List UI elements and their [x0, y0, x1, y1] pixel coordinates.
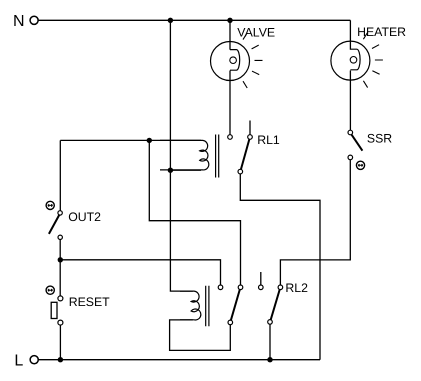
switch RL1 right contact: [248, 135, 253, 140]
switch SSR lever: [352, 135, 363, 151]
wire: RESET bottom to bottom rail: [59, 325, 61, 360]
svg-text:OUT2: OUT2: [68, 210, 101, 224]
svg-text:HEATER: HEATER: [357, 25, 406, 39]
switch SSR bottom contact: [348, 155, 353, 160]
wire: valve lamp bottom to RL1 left contact: [229, 71, 231, 135]
wire: RL2 D stub: [260, 272, 262, 285]
switch SSR top contact: [348, 130, 353, 135]
svg-text:VALVE: VALVE: [237, 25, 275, 39]
junction dot coil1 top node: [147, 138, 152, 143]
svg-text:N: N: [13, 13, 25, 30]
wire: RL1 bottom to right vertical and down to bottom rail: [240, 174, 320, 360]
switch K2 contact A (from OUT2 node): [218, 285, 223, 290]
wire: node dot at coil1 top to y221 then right and down to switch B: [149, 140, 240, 285]
terminal N: [30, 16, 38, 24]
wire: heater drop from rail to lamp: [349, 20, 351, 49]
relay coil 1 core: [216, 135, 219, 178]
lamp VALVE body: [211, 42, 250, 81]
lamp VALVE light rays: [243, 33, 263, 88]
lamp HEATER light rays: [363, 32, 383, 87]
junction dot RL2 bottom / L rail: [267, 357, 272, 362]
wire: junction to switch A stub: [60, 260, 220, 285]
switch RL1 left contact: [228, 135, 233, 140]
wire: top N rail: [38, 19, 350, 21]
SSR actuator mark: [356, 161, 364, 169]
switch RL2 right contact E: [278, 285, 283, 290]
junction dot coil1 bottom / main vertical: [168, 168, 173, 173]
switch K2 contact B (from RL1 node): [238, 285, 243, 290]
wire: OUT2 drop: [59, 140, 61, 210]
wire: OUT2 bottom to junction to RESET top: [59, 240, 61, 296]
switch RL2 lever: [271, 290, 280, 320]
push button RESET bottom contact: [58, 320, 63, 325]
wire: RL2 F contact down to rail: [269, 324, 271, 360]
switch OUT2 bottom contact: [58, 235, 62, 239]
relay coil 2 core: [206, 286, 209, 326]
switch RL1 lever: [241, 139, 249, 169]
lamp HEATER body: [331, 41, 370, 80]
lamp HEATER filament: [350, 49, 360, 70]
wire: RL1 right stub: [249, 121, 251, 135]
relay coil 1 (upper): [160, 140, 209, 170]
switch RL2 stub contact D: [259, 285, 264, 290]
junction dot N rail / valve branch: [227, 18, 232, 23]
terminal L: [30, 356, 38, 364]
svg-text:RL2: RL2: [285, 281, 308, 295]
relay coil 2 (lower): [180, 291, 201, 320]
wire: bottom L rail: [38, 359, 320, 361]
switch RL2 common contact F: [268, 320, 273, 325]
switch OUT2 top contact: [58, 211, 62, 215]
wire: valve drop from rail to lamp: [229, 20, 231, 49]
junction dot N rail / main vertical: [168, 18, 173, 23]
svg-text:RESET: RESET: [69, 295, 110, 309]
wire: main vertical from N rail to coil2 top terminal: [170, 20, 192, 291]
svg-text:L: L: [14, 353, 23, 370]
RESET actuator mark: [46, 286, 54, 294]
OUT2 actuator mark: [46, 201, 54, 209]
svg-text:SSR: SSR: [367, 131, 392, 145]
switch K2 (left bottom) lever: [231, 290, 240, 321]
RESET button bar: [51, 302, 57, 318]
switch K2 common contact C: [228, 320, 233, 325]
switch RL1 bottom contact: [238, 169, 243, 174]
wire: RL2 E contact up, across to SSR bottom: [280, 160, 350, 285]
junction dot OUT2/RESET node: [58, 257, 63, 262]
wire: heater lamp bottom to SSR top contact: [349, 71, 351, 131]
wire: coil2 bottom loop to switch C: [170, 320, 231, 351]
switch OUT2 lever: [49, 215, 59, 234]
wire: coil1 bottom terminal from main vertical dot: [170, 169, 201, 171]
svg-text:RL1: RL1: [257, 133, 280, 147]
wire: coil1 top terminal across to OUT2 corner: [60, 139, 201, 141]
push button RESET top contact: [58, 296, 63, 301]
lamp VALVE filament: [230, 50, 240, 71]
junction dot RESET bottom / L rail: [58, 357, 63, 362]
